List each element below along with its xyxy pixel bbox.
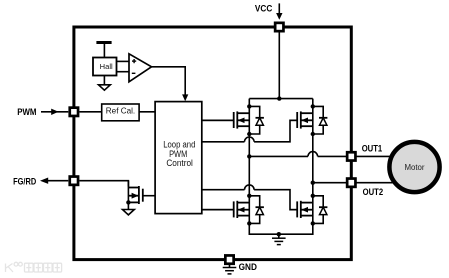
terminal GND (225, 255, 233, 263)
svg-text:Hall: Hall (100, 62, 113, 71)
wire OUT2 (313, 182, 347, 184)
node Q5 source/body junction (126, 200, 130, 204)
transistor Q3 (low-side left) (202, 201, 250, 218)
transistor Q4 (low-side right) (290, 201, 313, 218)
svg-text:PWM: PWM (17, 107, 36, 118)
wire PWM terminal to Ref Cal (79, 111, 101, 113)
Hall sensor block (93, 58, 117, 76)
wire OUT1 to motor (356, 155, 392, 157)
watermark logo (6, 262, 62, 272)
wire Hall outputs to comparator (117, 61, 130, 71)
motor M1 (389, 142, 439, 192)
wire OUT2 to motor (356, 182, 393, 184)
ground (GND pin) (229, 264, 231, 268)
wire gate drive Q4 (low-side right, hops over Q3 column) (202, 190, 297, 210)
terminal PWM (70, 108, 78, 116)
wire gate drive Q1 (high-side left) (202, 119, 234, 121)
wire Q4 column down to ground rail (279, 183, 313, 235)
transistor Q1 (high-side left) (202, 111, 250, 128)
wire Q1 drain-source column (248, 99, 250, 157)
terminal OUT1 (347, 152, 355, 160)
node VCC/top-rail junction (277, 96, 281, 100)
svg-text:Control: Control (166, 158, 193, 169)
wire H-bridge top rail (249, 98, 312, 100)
wire gate drive Q3 (low-side left) (202, 209, 234, 211)
node OUT2 junction (311, 181, 315, 185)
svg-text:OUT1: OUT1 (362, 144, 383, 155)
terminal FG/RD (70, 177, 78, 185)
transistor Q2 (high-side right) (290, 111, 313, 128)
terminal VCC (275, 23, 283, 31)
svg-text:GND: GND (239, 262, 257, 273)
wire PWM input arrow (41, 111, 68, 113)
node OUT1 junction (247, 154, 251, 158)
ground (H-bridge) (278, 234, 280, 238)
wire OUT1 (hops over Q2 column) (249, 155, 347, 157)
node Q1 diode taps (247, 104, 251, 108)
diode D2 (body diode) (313, 106, 328, 134)
node H-bridge source junction (277, 232, 281, 236)
IC boundary box (74, 27, 351, 260)
diode D1 (body diode) (249, 106, 264, 134)
wire VCC internal rail drop (278, 30, 280, 99)
wire Q3 column down to ground rail (249, 156, 278, 234)
node Q2 diode taps (311, 104, 315, 108)
diode D3 (body diode) (249, 196, 264, 224)
node Q3 diode taps (247, 194, 251, 198)
svg-text:VCC: VCC (255, 3, 272, 14)
ground (Q5 source) (123, 210, 135, 215)
wire comparator output to Loop control (152, 67, 186, 96)
op-amp comparator (129, 54, 152, 82)
svg-text:Ref Cal.: Ref Cal. (106, 106, 135, 116)
wire VCC arrow lead (278, 3, 280, 14)
wire FG/RD terminal to Q5 drain (79, 181, 128, 187)
wire FG/RD output arrow (47, 180, 68, 182)
block Loop and PWM Control (155, 102, 202, 214)
transistor Q5 (FG/RD open-drain) (128, 181, 155, 210)
ground (Hall) (103, 76, 105, 85)
block Ref Cal. (102, 104, 139, 121)
wire Ref Cal to Loop control (139, 111, 155, 113)
svg-text:OUT2: OUT2 (363, 187, 384, 198)
power bar (Hall supply) (96, 43, 111, 58)
svg-text:FG/RD: FG/RD (13, 176, 36, 187)
svg-text:Motor: Motor (404, 162, 424, 172)
wire gate drive Q2 (high-side right, hops over Q1 column) (202, 120, 297, 142)
wire Q2 drain-source column (312, 99, 314, 183)
diode D4 (body diode) (313, 196, 328, 224)
node Q4 diode taps (311, 194, 315, 198)
terminal OUT2 (347, 179, 355, 187)
